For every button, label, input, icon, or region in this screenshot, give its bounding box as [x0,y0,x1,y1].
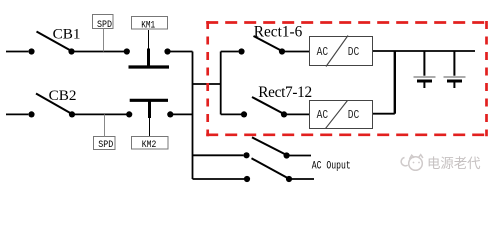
capacitor C2 bottom plate [447,80,462,83]
switch output1 blade [252,137,287,155]
contactor KM2 box [132,137,169,150]
switch Rect1-6 blade [254,36,283,51]
svg-text:DC: DC [348,45,360,59]
svg-text:电源老代: 电源老代 [427,156,481,173]
svg-text:AC: AC [317,45,329,59]
node output1 left contact [243,152,249,158]
capacitor C2 bottom lead [453,83,455,89]
contactor KM1 armature stem [147,49,150,66]
capacitor C1 top plate [414,76,436,78]
rectifier cabinet red dashed border bottom [206,133,488,136]
rectifier cabinet red dashed border right [485,21,488,136]
svg-text:Rect1-6: Rect1-6 [254,23,303,40]
rectifier U2 AC/DC box [310,101,373,129]
capacitor C1 bottom lead [423,83,425,89]
rectifier U1 diagonal [326,36,348,67]
node CB1 input [28,48,34,54]
capacitor C1 bottom plate [417,80,432,83]
node CB2 input [28,111,34,117]
wire outer bus [192,52,194,180]
wire CB2 left stub [6,113,28,115]
wire output1 right stub [287,155,311,157]
SPD box top [93,15,114,29]
node Rect1-6 left contact [238,48,244,54]
wire bus jumper [193,83,221,85]
node output1 right contact [284,152,290,158]
contactor KM2 armature stem [148,101,151,118]
node CB2 blade pivot [69,111,75,117]
node output2 right contact [286,176,292,182]
svg-text:KM1: KM1 [141,20,155,31]
wire to Rect7-12 switch [221,113,242,115]
node Rect7-12 right contact [281,111,287,117]
wire KM2 contact to bus [170,113,192,115]
svg-text:KM2: KM2 [142,140,157,151]
breaker CB2 blade [36,94,72,115]
wire KM2 thin stem [149,118,151,136]
contactor KM1 box [132,17,168,30]
wire KM1 contact to bus [168,51,193,53]
capacitor C1 top lead [423,51,425,76]
node CB1 blade pivot [68,48,74,54]
wire CB1 to KM1 contact [72,51,127,53]
wire DC rail top [373,50,475,52]
svg-text:SPD: SPD [97,20,112,31]
wire Rect7-12 to rectifier [284,113,309,115]
wire KM1 thin stem [148,30,150,49]
breaker CB1 blade [37,32,72,52]
svg-text:DC: DC [348,108,360,122]
node KM1 right contact [164,48,170,54]
rectifier cabinet red dashed border top [206,21,488,24]
svg-text:CB1: CB1 [53,26,81,43]
capacitor C2 top plate [444,76,466,78]
node Rect1-6 right contact [279,48,285,54]
rectifier U1 AC/DC box [310,37,373,66]
svg-text:CB2: CB2 [49,87,77,104]
svg-text:AC: AC [317,108,329,122]
wire to Rect1-6 switch [221,51,239,53]
node KM1 left contact [124,48,130,54]
node output2 left contact [244,176,250,182]
svg-text:Rect7-12: Rect7-12 [258,84,312,101]
rectifier cabinet red dashed border left [206,21,209,136]
wire output2 right stub [289,178,314,180]
node Rect7-12 left contact [241,111,247,117]
contactor KM1 bar [129,65,170,68]
wire CB2 to KM2 contact [72,113,129,115]
contactor KM2 bar [130,99,168,102]
wire SPD1 stem [103,29,105,52]
node KM2 left contact [126,111,132,117]
wire Rect1-6 to rectifier [282,51,309,53]
capacitor C2 top lead [453,51,455,76]
watermark icon [401,155,423,171]
wire inner bus [220,52,222,115]
wire U2 output riser [394,51,396,114]
switch Rect7-12 blade [252,97,284,114]
node KM2 right contact [167,111,173,117]
wire rectifier U2 output [373,113,395,115]
wire CB1 left stub [6,51,28,53]
SPD box bottom [94,137,116,150]
switch output2 blade [252,158,290,178]
rectifier U2 diagonal [326,101,348,129]
svg-text:SPD: SPD [98,140,113,151]
svg-text:AC Ouput: AC Ouput [312,161,351,173]
wire SPD2 stem [104,114,106,136]
wire to AC output switch 1 [193,154,244,156]
wire to AC output switch 2 [193,178,245,180]
